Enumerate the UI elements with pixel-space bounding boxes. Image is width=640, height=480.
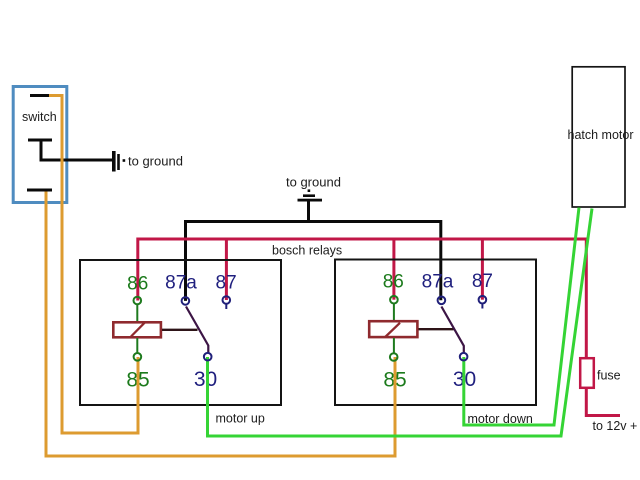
svg-text:86: 86 (383, 272, 404, 293)
relay K2 armature arm (441, 307, 463, 354)
svg-text:87: 87 (472, 271, 493, 292)
ground symbol center (298, 189, 323, 201)
fuse F1 box (580, 358, 594, 388)
relay K1 coil upper lead (136, 304, 138, 322)
svg-text:hatch motor: hatch motor (568, 128, 634, 142)
svg-text:to ground: to ground (128, 154, 183, 169)
relay K1 pin 87a terminal (182, 297, 190, 305)
switch terminal top (30, 94, 49, 97)
relay K2 pin 87a terminal (438, 297, 446, 305)
wire crimson drop to relay1 87 (225, 239, 228, 300)
relay K2 box (335, 260, 536, 406)
svg-text:to 12v +: to 12v + (593, 419, 638, 433)
svg-text:30: 30 (194, 368, 217, 391)
svg-text:bosch relays: bosch relays (272, 244, 342, 258)
svg-text:87a: 87a (422, 271, 454, 292)
wire crimson drop to relay2 86 (392, 239, 395, 300)
relay K1 pin 87 terminal (223, 296, 231, 304)
switch S1 box (13, 87, 67, 203)
svg-text:fuse: fuse (597, 369, 621, 383)
svg-text:86: 86 (127, 274, 148, 295)
relay K1 coil box (113, 322, 161, 337)
svg-text:motor up: motor up (216, 412, 265, 426)
relay K2 pin 87 terminal (479, 296, 487, 304)
relay K2 armature link (419, 328, 454, 330)
wire fuse to 12v (586, 389, 620, 416)
wire switch middle to ground (40, 159, 113, 162)
svg-text:87a: 87a (165, 273, 197, 294)
ground symbol left (112, 151, 125, 172)
relay K1 coil diagonal (131, 323, 145, 337)
hatch motor M1 box (572, 67, 625, 207)
relay K2 coil upper lead (393, 304, 395, 321)
wire crimson 12v bus (138, 239, 587, 358)
relay K1 pin 87 stub (225, 304, 227, 309)
relay K2 pin 30 terminal (460, 353, 468, 361)
relay K1 pin 86 terminal (134, 297, 142, 305)
wire green motor-up: relay1 30 to hatch motor (208, 209, 593, 437)
relay K1 coil lower lead (136, 338, 138, 353)
wire orange A: switch top to relay1 85 (49, 96, 138, 434)
relay K1 armature link (162, 329, 198, 331)
switch terminal bottom (27, 189, 52, 192)
switch terminal middle (28, 140, 52, 160)
relay K2 pin 85 terminal (390, 353, 398, 361)
relay K1 box (80, 260, 281, 405)
svg-text:switch: switch (22, 110, 57, 124)
relay K2 pin 87 stub (481, 304, 483, 309)
relay K2 coil box (369, 321, 417, 337)
svg-text:to ground: to ground (286, 175, 341, 190)
relay K1 pin 30 terminal (204, 353, 212, 361)
relay K2 coil lower lead (393, 338, 395, 353)
svg-text:87: 87 (216, 272, 237, 293)
wire ground stem (307, 201, 310, 223)
wire orange B: switch bottom to relay2 85 (46, 192, 395, 457)
wire green motor-down: relay2 30 to hatch motor (464, 208, 579, 426)
wire crimson drop to relay2 87 (481, 239, 484, 300)
relay K2 coil diagonal (385, 323, 400, 337)
relay K1 pin 85 terminal (134, 353, 142, 361)
relay K2 pin 86 terminal (390, 296, 398, 304)
wire black ground bus to both 87a (186, 222, 441, 301)
relay K1 armature arm (186, 307, 208, 353)
